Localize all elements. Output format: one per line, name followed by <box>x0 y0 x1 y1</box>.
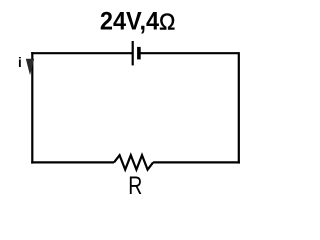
wire top-left segment <box>31 52 133 54</box>
battery V1 short thick plate (negative) <box>137 47 141 60</box>
current direction arrow (down) <box>26 59 34 75</box>
wire bottom-right segment <box>153 161 240 163</box>
svg-text:24V,4Ω: 24V,4Ω <box>100 8 175 36</box>
wire left vertical segment <box>31 52 33 164</box>
svg-text:i: i <box>18 55 22 70</box>
battery V1 long plate (positive) <box>132 41 134 65</box>
svg-text:R: R <box>128 172 142 200</box>
wire bottom-left segment <box>31 161 114 163</box>
wire right vertical segment <box>238 52 240 164</box>
resistor R zigzag <box>114 155 153 169</box>
wire top-right segment <box>139 52 239 54</box>
